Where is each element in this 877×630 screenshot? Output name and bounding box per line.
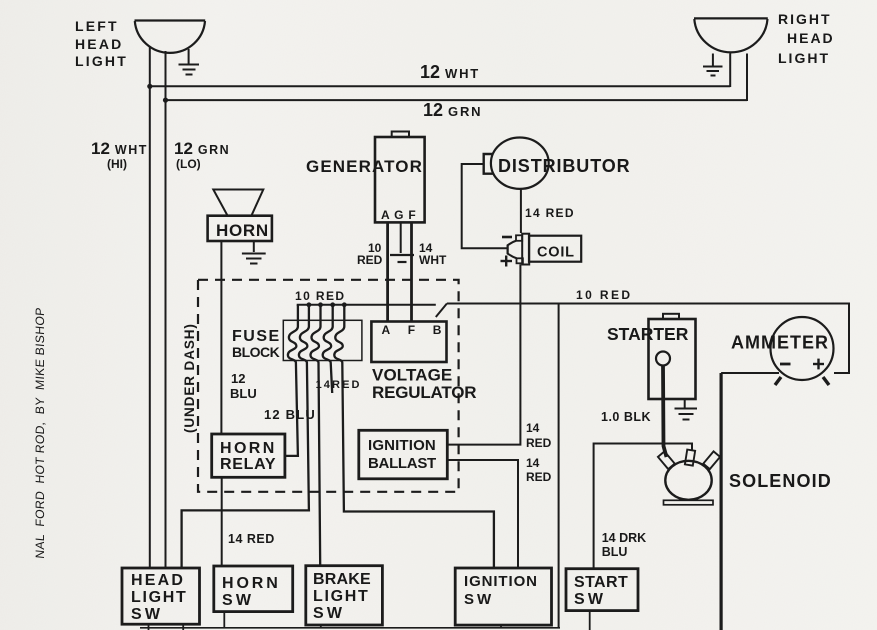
svg-text:1.0 BLK: 1.0 BLK xyxy=(601,410,651,424)
ground (left headlight) xyxy=(179,49,200,75)
stub brake light sw terminal xyxy=(320,625,322,629)
svg-text:HEAD: HEAD xyxy=(787,30,835,46)
svg-text:RED: RED xyxy=(526,470,552,484)
label BRAKE LIGHT SW xyxy=(313,571,371,622)
svg-text:COIL: COIL xyxy=(537,245,575,261)
wire horn to horn relay xyxy=(220,241,222,435)
wire generator G to ground xyxy=(400,222,402,253)
wire battery cable down right side xyxy=(719,373,722,630)
svg-text:SOLENOID: SOLENOID xyxy=(729,471,832,491)
svg-text:HORN: HORN xyxy=(222,575,281,592)
fuse F3 (to brake light switch) xyxy=(311,305,321,566)
svg-text:AFB: AFB xyxy=(382,323,459,337)
svg-text:HEAD: HEAD xyxy=(131,572,185,589)
svg-text:14 RED: 14 RED xyxy=(525,206,575,220)
label RIGHT HEAD LIGHT xyxy=(778,11,835,66)
svg-text:BLOCK: BLOCK xyxy=(232,344,280,360)
svg-text:BLU: BLU xyxy=(602,545,628,559)
head light switch box xyxy=(122,568,200,624)
label 14 RED (ballast top wire) xyxy=(526,421,552,450)
ground (horn) xyxy=(242,241,266,264)
solenoid xyxy=(665,461,711,500)
svg-text:RED: RED xyxy=(357,253,383,267)
generator GEN xyxy=(375,132,425,223)
wire right lamp drop (WHT) xyxy=(729,54,731,88)
svg-text:WHT: WHT xyxy=(419,253,447,267)
ammeter plus sign xyxy=(813,359,824,370)
wire horn relay to horn switch xyxy=(221,477,223,566)
ignition ballast box xyxy=(359,430,448,479)
right headlight LAMP2 xyxy=(694,18,768,52)
svg-text:START: START xyxy=(574,574,628,591)
label START SW xyxy=(574,574,628,608)
label 12 WHT (HI) xyxy=(91,139,148,171)
label 14 WHT (generator lead) xyxy=(419,241,447,267)
svg-text:RELAY: RELAY xyxy=(220,456,276,473)
starter box xyxy=(649,314,696,399)
svg-text:A G F: A G F xyxy=(381,208,417,222)
voltage regulator box xyxy=(371,322,446,363)
label 12 BLU (fuse 1) xyxy=(230,371,257,401)
junction dot (12 WHT) xyxy=(147,84,152,89)
wire 10 RED to ammeter plus xyxy=(447,304,849,374)
svg-text:FUSE: FUSE xyxy=(232,328,281,345)
wire ignition ballast to ignition switch xyxy=(446,460,518,568)
solenoid left terminal xyxy=(658,451,675,469)
svg-text:HORN: HORN xyxy=(220,440,277,457)
label 12 GRN (LO) xyxy=(174,139,230,171)
ignition switch box xyxy=(455,568,551,625)
coil plus sign xyxy=(501,256,513,267)
wire 10 RED drop to bottom feed bus xyxy=(558,305,560,629)
start switch box xyxy=(566,569,638,611)
svg-text:10 RED: 10 RED xyxy=(576,288,632,302)
horn switch box xyxy=(214,566,293,612)
svg-text:LIGHT: LIGHT xyxy=(313,588,370,605)
coil xyxy=(508,234,582,265)
svg-text:NAL FORD HOT ROD, BY MIKE: NAL FORD HOT ROD, BY MIKE BISHOP xyxy=(33,307,47,560)
ammeter plus terminal stub xyxy=(823,377,829,385)
svg-text:14 RED: 14 RED xyxy=(228,532,275,546)
junction dot fuse 5 xyxy=(342,302,347,307)
svg-text:RIGHT: RIGHT xyxy=(778,11,832,27)
fuse F2 (to head light switch) xyxy=(182,305,309,568)
wire 12 GRN (LO) vertical from left lamp xyxy=(165,51,167,568)
label 10 RED (generator lead) xyxy=(357,241,383,267)
junction dot (12 GRN) xyxy=(163,98,168,103)
svg-text:SW: SW xyxy=(313,605,345,622)
svg-text:HORN: HORN xyxy=(216,221,269,240)
svg-text:RED: RED xyxy=(526,436,552,450)
svg-text:IGNITION: IGNITION xyxy=(368,437,436,454)
wire start switch to solenoid xyxy=(594,444,692,569)
wire coil plus down to ignition ballast xyxy=(446,264,520,444)
svg-text:LEFT: LEFT xyxy=(75,18,119,34)
wire generator F to regulator (14 WHT) xyxy=(410,222,413,321)
ammeter minus terminal stub xyxy=(775,377,781,385)
svg-text:GENERATOR: GENERATOR xyxy=(306,157,423,176)
fuse F1 (to horn relay) xyxy=(285,305,298,456)
wire regulator B diagonal to 10 RED line xyxy=(436,304,447,318)
svg-text:AMMETER: AMMETER xyxy=(731,333,829,353)
left headlight LAMP1 xyxy=(135,21,206,53)
distributor side terminal xyxy=(484,154,493,174)
svg-text:DISTRIBUTOR: DISTRIBUTOR xyxy=(498,156,631,176)
svg-text:BRAKE: BRAKE xyxy=(313,571,371,588)
stub head light sw terminal 2 xyxy=(182,624,184,630)
ground (generator) xyxy=(390,255,414,262)
label FUSE BLOCK xyxy=(232,328,281,360)
svg-text:LIGHT: LIGHT xyxy=(75,53,128,69)
ground (right headlight) xyxy=(703,54,723,76)
ammeter minus sign xyxy=(780,363,791,366)
svg-text:(HI): (HI) xyxy=(107,157,127,171)
svg-text:14RED: 14RED xyxy=(316,379,362,391)
svg-text:SW: SW xyxy=(131,606,163,623)
wire ammeter minus to solenoid battery post xyxy=(721,372,779,374)
svg-text:SW: SW xyxy=(464,591,494,608)
junction dot fuse 3 xyxy=(318,302,323,307)
label LEFT HEAD LIGHT xyxy=(75,18,128,69)
horn xyxy=(208,190,272,242)
solenoid middle terminal xyxy=(685,450,695,466)
svg-text:14 DRK: 14 DRK xyxy=(602,531,646,545)
svg-text:SW: SW xyxy=(222,592,254,609)
label HORN SW xyxy=(222,575,281,609)
svg-text:12: 12 xyxy=(231,371,245,386)
fuse F5 (to ignition switch) xyxy=(334,305,494,568)
starter terminal button xyxy=(656,352,670,366)
distributor DIST xyxy=(491,138,549,189)
wire 12 GRN horizontal run xyxy=(166,99,748,101)
svg-text:14: 14 xyxy=(526,456,540,470)
label IGNITION SW xyxy=(464,573,538,608)
junction dot fuse 2 xyxy=(307,302,312,307)
stub head light sw terminal 1 xyxy=(148,624,150,630)
stub horn sw terminal xyxy=(223,612,225,628)
label HEAD LIGHT SW xyxy=(131,572,188,623)
label IGNITION BALLAST xyxy=(368,437,436,472)
svg-text:HEAD: HEAD xyxy=(75,36,123,52)
svg-text:(UNDER DASH): (UNDER DASH) xyxy=(182,323,197,433)
svg-text:10 RED: 10 RED xyxy=(295,289,345,303)
horn relay box xyxy=(212,434,285,477)
brake light switch box xyxy=(306,566,383,625)
bottom feed bus xyxy=(140,627,560,629)
node 10 RED fuse bus xyxy=(297,304,436,306)
junction dot fuse 4 xyxy=(330,302,335,307)
fuse F4 (spare) xyxy=(323,305,333,393)
label VOLTAGE REGULATOR xyxy=(372,366,476,403)
wire 12 WHT horizontal run xyxy=(150,85,730,87)
ground (starter) xyxy=(675,399,698,420)
svg-text:IGNITION: IGNITION xyxy=(464,573,538,590)
label HORN RELAY xyxy=(220,440,277,473)
fuse block outline xyxy=(283,320,362,360)
svg-text:BALLAST: BALLAST xyxy=(368,455,436,472)
svg-text:12 BLU: 12 BLU xyxy=(264,407,316,422)
label 14 DRK BLU xyxy=(602,531,646,559)
coil minus sign xyxy=(502,236,512,239)
svg-text:LIGHT: LIGHT xyxy=(131,589,188,606)
svg-text:LIGHT: LIGHT xyxy=(778,50,830,66)
svg-text:14: 14 xyxy=(526,421,540,435)
under-dash dashed enclosure xyxy=(198,280,459,492)
svg-text:BLU: BLU xyxy=(230,386,257,401)
label 14 RED (ballast bottom wire) xyxy=(526,456,552,484)
svg-text:STARTER: STARTER xyxy=(607,324,689,344)
wire distributor to coil minus (left loop) xyxy=(462,164,509,248)
svg-text:REGULATOR: REGULATOR xyxy=(372,383,476,402)
wire generator A to regulator (10 RED) xyxy=(386,222,389,321)
svg-text:(LO): (LO) xyxy=(176,157,201,171)
solenoid right terminal xyxy=(703,451,720,469)
wire distributor to coil top (14 RED) xyxy=(520,189,522,233)
wire right lamp drop (GRN) xyxy=(746,54,748,102)
wire 12 WHT (HI) vertical from left lamp xyxy=(149,46,151,568)
solenoid base plate xyxy=(664,500,714,505)
wire starter cable 1.0 BLK to solenoid xyxy=(663,366,667,458)
stub start sw terminal xyxy=(589,611,591,630)
svg-text:VOLTAGE: VOLTAGE xyxy=(372,366,452,385)
stub ignition sw terminal xyxy=(500,625,502,628)
ammeter xyxy=(771,317,834,380)
svg-text:SW: SW xyxy=(574,591,606,608)
